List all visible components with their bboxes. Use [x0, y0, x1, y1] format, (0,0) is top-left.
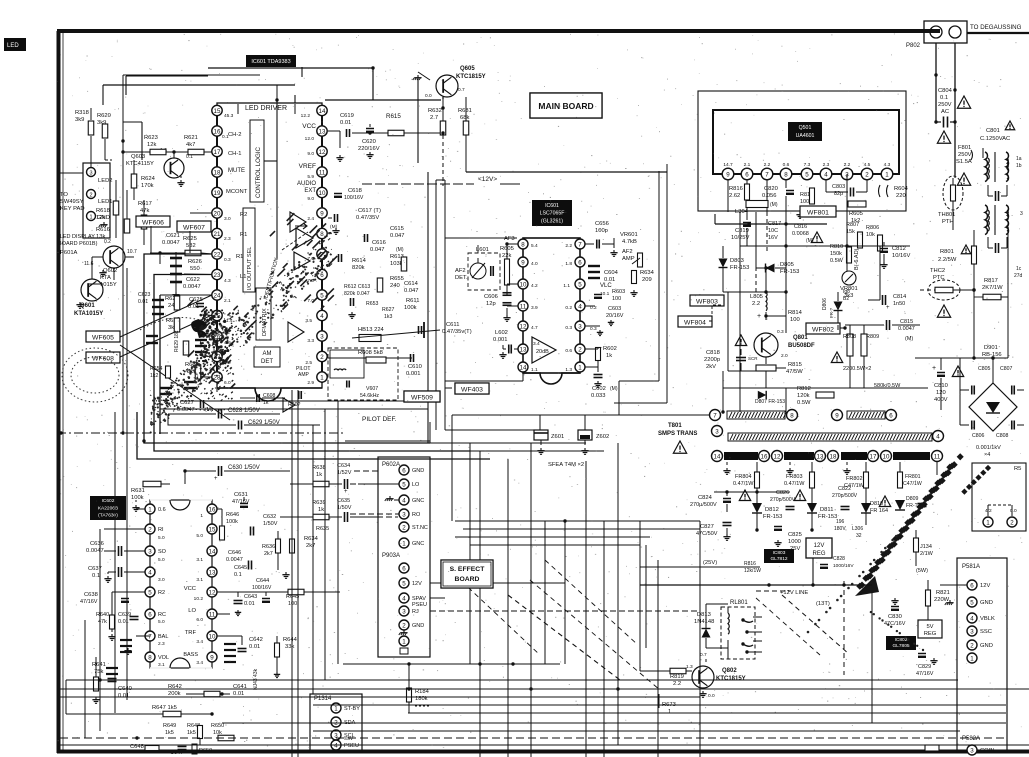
R808 R809 — [847, 334, 853, 356]
dense cluster pins 25-27 — [196, 309, 234, 401]
svg-text:R819: R819 — [670, 674, 684, 680]
svg-text:R627: R627 — [382, 307, 395, 313]
P903A pin 6 — [399, 563, 409, 573]
svg-text:(M): (M) — [396, 247, 404, 253]
extra caps left column — [152, 299, 164, 301]
T801 secondary black bars — [712, 451, 723, 462]
wires q605 — [442, 97, 444, 121]
svg-text:UA4601: UA4601 — [796, 133, 815, 139]
svg-text:1: 1 — [885, 171, 889, 178]
svg-text:WF509: WF509 — [411, 394, 433, 401]
svg-text:D805: D805 — [780, 262, 794, 268]
svg-text:15: 15 — [209, 526, 216, 533]
svg-text:0.0047: 0.0047 — [183, 284, 201, 290]
sound IC pin 5 — [575, 279, 585, 289]
P581A pin 6 — [967, 580, 977, 590]
IC601 pin 4 — [317, 310, 327, 320]
svg-text:2: 2 — [320, 354, 324, 361]
svg-text:L805: L805 — [750, 294, 763, 300]
svg-text:C818: C818 — [706, 350, 720, 356]
label WF607 — [177, 221, 211, 232]
svg-text:0.1: 0.1 — [234, 572, 242, 578]
svg-text:11: 11 — [520, 303, 527, 310]
svg-text:C606: C606 — [484, 294, 498, 300]
svg-text:4.3: 4.3 — [884, 162, 891, 168]
svg-text:KTA: KTA — [100, 275, 111, 281]
svg-text:100k: 100k — [404, 305, 417, 311]
svg-text:1a: 1a — [1016, 156, 1022, 162]
svg-text:3.5: 3.5 — [305, 318, 312, 324]
P903A pin 5 — [399, 578, 409, 588]
line to T801 pin7 — [452, 414, 709, 416]
bottom bus lines — [343, 663, 560, 665]
svg-text:FR-153: FR-153 — [780, 269, 799, 275]
svg-text:RO: RO — [412, 512, 421, 518]
svg-text:0.5W: 0.5W — [830, 258, 844, 264]
T801 primary bar 7-8 — [727, 411, 785, 419]
svg-text:7: 7 — [148, 633, 152, 640]
svg-text:12p: 12p — [486, 301, 496, 307]
svg-text:TRF: TRF — [185, 630, 197, 636]
bus small res — [925, 745, 939, 751]
svg-text:5.0: 5.0 — [158, 535, 165, 541]
svg-text:0.3: 0.3 — [224, 257, 231, 263]
svg-text:C47/1W: C47/1W — [903, 481, 922, 487]
svg-text:3: 3 — [402, 608, 406, 615]
svg-text:3.1: 3.1 — [158, 662, 165, 668]
branch 4 right — [898, 472, 903, 488]
svg-text:C827: C827 — [700, 524, 714, 530]
wires to P602A — [354, 470, 378, 472]
svg-text:GND: GND — [980, 600, 993, 606]
svg-text:9: 9 — [726, 171, 730, 178]
svg-text:(25V): (25V) — [703, 560, 717, 566]
svg-text:HB13 224: HB13 224 — [358, 327, 385, 333]
P581A pin 4 — [967, 613, 977, 623]
svg-text:1k: 1k — [316, 472, 322, 478]
IC602 pin 11 — [207, 609, 217, 619]
caps C626 — [184, 381, 196, 383]
svg-text:+: + — [932, 365, 936, 372]
MAIN BOARD box — [530, 93, 602, 118]
T801 pin 3 — [712, 426, 723, 437]
R184 — [407, 688, 412, 702]
svg-text:SMPS TRANS: SMPS TRANS — [658, 431, 697, 437]
svg-text:C611: C611 — [446, 322, 459, 328]
svg-text:SW49SY: SW49SY — [60, 199, 84, 205]
svg-text:R647 1k5: R647 1k5 — [152, 705, 177, 711]
svg-text:9: 9 — [521, 259, 525, 266]
svg-text:B2: B2 — [843, 296, 849, 302]
svg-text:VCC: VCC — [184, 586, 196, 592]
svg-text:P802: P802 — [906, 43, 921, 49]
svg-text:0.6: 0.6 — [158, 507, 166, 513]
svg-text:Z602: Z602 — [596, 434, 609, 440]
svg-text:AM: AM — [263, 351, 272, 357]
svg-text:2.0: 2.0 — [781, 353, 788, 359]
svg-text:AUDIO: AUDIO — [297, 181, 316, 187]
svg-text:8: 8 — [148, 654, 152, 661]
svg-text:2.7: 2.7 — [430, 115, 438, 121]
svg-text:0.0047: 0.0047 — [177, 407, 195, 413]
svg-text:BU508DF: BU508DF — [788, 343, 815, 349]
T801 pin 9 — [832, 410, 843, 421]
svg-text:10.7: 10.7 — [127, 249, 137, 255]
svg-text:PILOT DEF.: PILOT DEF. — [362, 416, 397, 423]
label WF605 — [86, 331, 120, 342]
svg-text:(GL3261): (GL3261) — [541, 218, 563, 224]
svg-text:170k: 170k — [141, 183, 154, 189]
svg-text:3.0: 3.0 — [224, 216, 231, 222]
power area long verticals — [739, 212, 741, 412]
IC601 pin 8 — [317, 228, 327, 238]
svg-text:AMP: AMP — [298, 372, 310, 378]
svg-text:LSC7065F: LSC7065F — [540, 211, 565, 217]
svg-text:12V: 12V — [814, 543, 825, 549]
svg-text:R632: R632 — [428, 108, 442, 114]
IC601 hatch bands — [188, 213, 338, 388]
svg-text:WF606: WF606 — [142, 219, 164, 226]
VR801 — [842, 271, 856, 285]
svg-text:D809: D809 — [906, 496, 919, 502]
svg-text:FR-153: FR-153 — [818, 514, 837, 520]
svg-text:R612 C613: R612 C613 — [344, 284, 370, 290]
nested L wires — [144, 254, 430, 443]
svg-text:WF804: WF804 — [684, 319, 706, 326]
svg-text:19: 19 — [214, 190, 221, 197]
svg-text:8: 8 — [320, 231, 324, 238]
svg-text:WF803: WF803 — [696, 298, 718, 305]
svg-text:DET.: DET. — [455, 275, 468, 281]
svg-text:WF605: WF605 — [92, 334, 114, 341]
svg-text:LED2: LED2 — [98, 178, 113, 184]
svg-text:16: 16 — [214, 128, 221, 135]
warning tri — [811, 232, 822, 243]
power IC body — [713, 110, 899, 174]
svg-text:C814: C814 — [893, 294, 906, 300]
svg-text:100p: 100p — [595, 228, 608, 234]
Q801 — [754, 333, 778, 357]
svg-text:2.9: 2.9 — [307, 380, 314, 386]
svg-text:2.2: 2.2 — [673, 681, 681, 687]
svg-text:R810: R810 — [830, 244, 843, 250]
svg-text:R626: R626 — [188, 259, 202, 265]
P602A pin 6 — [399, 465, 409, 475]
IC602 pin 3 — [145, 546, 155, 556]
svg-text:14.7: 14.7 — [723, 162, 733, 168]
svg-text:14: 14 — [319, 108, 326, 115]
svg-text:17: 17 — [214, 149, 221, 156]
svg-text:15: 15 — [214, 108, 221, 115]
svg-text:4.0: 4.0 — [531, 261, 538, 267]
scribble blob — [191, 320, 207, 333]
svg-text:FR802: FR802 — [846, 476, 863, 482]
svg-text:2.2: 2.2 — [565, 243, 572, 249]
svg-text:11: 11 — [934, 453, 941, 460]
svg-text:9.0: 9.0 — [307, 151, 314, 157]
svg-text:L1: L1 — [240, 274, 246, 280]
secondary rectifier branch 1 — [726, 468, 728, 471]
svg-text:45.3: 45.3 — [224, 113, 234, 119]
svg-text:820k: 820k — [352, 265, 365, 271]
amp triangles inside — [290, 212, 306, 232]
svg-text:VOL: VOL — [158, 655, 169, 661]
svg-text:0.0: 0.0 — [425, 93, 432, 99]
svg-text:PSEU: PSEU — [344, 743, 359, 749]
sound IC pin 10 — [518, 279, 528, 289]
svg-text:47k: 47k — [98, 619, 107, 625]
svg-text:C801: C801 — [986, 128, 1000, 134]
svg-text:(5W): (5W) — [916, 568, 928, 574]
svg-text:23: 23 — [214, 272, 221, 279]
sound IC pin 8 — [518, 239, 528, 249]
svg-text:S. EFFECT: S. EFFECT — [450, 566, 486, 573]
svg-text:1.1: 1.1 — [531, 367, 538, 373]
svg-text:C635: C635 — [337, 498, 350, 504]
svg-text:100: 100 — [288, 601, 297, 607]
wire top pair — [208, 67, 373, 69]
svg-text:12: 12 — [209, 589, 216, 596]
P602A pin 4 — [399, 495, 409, 505]
svg-text:0.01: 0.01 — [340, 120, 351, 126]
svg-text:0.1: 0.1 — [940, 95, 948, 101]
svg-text:D806: D806 — [822, 298, 828, 310]
svg-text:3: 3 — [402, 511, 406, 518]
svg-text:0.47/35V: 0.47/35V — [356, 215, 379, 221]
svg-text:+: + — [757, 313, 761, 320]
svg-text:ST-BY: ST-BY — [344, 706, 360, 712]
IC602 pin 10 — [207, 631, 217, 641]
svg-text:GL7805: GL7805 — [892, 643, 909, 649]
C814 — [882, 295, 884, 305]
svg-text:P582A: P582A — [962, 736, 980, 742]
svg-text:C638: C638 — [84, 592, 98, 598]
transistor Q605 — [436, 75, 458, 97]
sound IC pin 7 — [575, 239, 585, 249]
svg-text:<12V>: <12V> — [478, 176, 497, 183]
wire keypad — [90, 136, 92, 168]
svg-text:5: 5 — [970, 599, 974, 606]
svg-text:2.1: 2.1 — [224, 298, 231, 304]
svg-text:GNC: GNC — [412, 541, 424, 547]
svg-text:1.3: 1.3 — [686, 664, 693, 670]
svg-text:6: 6 — [889, 412, 893, 419]
IC601 inner wires — [276, 100, 278, 258]
IC601 pin 2 — [317, 351, 327, 361]
power wire y224 — [715, 223, 827, 225]
svg-text:100: 100 — [790, 317, 800, 323]
P1314 pin 3 — [331, 730, 341, 740]
svg-text:120k: 120k — [797, 393, 810, 399]
svg-text:12k: 12k — [96, 215, 105, 221]
svg-text:C623: C623 — [138, 292, 151, 298]
svg-text:100/16V: 100/16V — [252, 585, 272, 591]
IC601 pin 24 — [212, 290, 222, 300]
svg-text:C619: C619 — [340, 113, 354, 119]
svg-text:SCR: SCR — [748, 356, 758, 361]
svg-text:18: 18 — [214, 169, 221, 176]
svg-text:WF802: WF802 — [812, 326, 834, 333]
svg-text:10: 10 — [883, 453, 890, 460]
svg-text:0.7: 0.7 — [700, 652, 707, 658]
WF804 — [678, 316, 712, 327]
svg-text:1k: 1k — [318, 507, 324, 513]
svg-text:9.0: 9.0 — [307, 196, 314, 202]
checker ribbon NE-SW — [855, 453, 991, 596]
IC601 pin 20 — [212, 208, 222, 218]
svg-text:R1: R1 — [240, 232, 247, 238]
svg-text:12: 12 — [520, 323, 527, 330]
extra bottom diagonals — [455, 575, 540, 655]
svg-text:270p/500V: 270p/500V — [770, 497, 796, 503]
branch 3 — [846, 468, 848, 471]
svg-text:(LED DISPLAY: (LED DISPLAY — [58, 234, 95, 240]
IC803 chip — [764, 549, 794, 563]
P581A connector — [957, 558, 1007, 752]
5V REG box — [918, 620, 942, 638]
svg-text:21: 21 — [214, 231, 221, 238]
caps under IC601 — [256, 394, 258, 402]
svg-text:C632: C632 — [263, 514, 276, 520]
svg-text:4: 4 — [936, 433, 940, 440]
svg-text:VREF: VREF — [299, 163, 316, 170]
svg-text:C644: C644 — [256, 578, 269, 584]
P802 connector — [924, 21, 967, 43]
svg-text:10k: 10k — [866, 232, 875, 238]
T801 pin 8 — [787, 410, 798, 421]
svg-text:820k 0.047: 820k 0.047 — [344, 291, 370, 297]
WF801 — [800, 206, 836, 217]
svg-text:10.2: 10.2 — [194, 596, 204, 602]
svg-text:2200p: 2200p — [704, 357, 720, 363]
svg-text:GNC: GNC — [412, 498, 424, 504]
svg-text:1: 1 — [986, 519, 990, 526]
svg-text:270p/500V: 270p/500V — [832, 493, 858, 499]
P581A pin 3 — [967, 626, 977, 636]
svg-text:9: 9 — [835, 412, 839, 419]
svg-text:2k7: 2k7 — [306, 543, 315, 549]
IC601 pin 14 — [317, 105, 327, 115]
svg-text:5V: 5V — [926, 624, 933, 630]
frame bottom border — [57, 750, 1029, 754]
svg-text:0.01: 0.01 — [118, 619, 129, 625]
svg-text:Q501: Q501 — [799, 125, 812, 131]
svg-text:150k: 150k — [830, 251, 842, 257]
svg-text:8: 8 — [790, 412, 794, 419]
TH801 — [943, 176, 963, 210]
svg-text:2.3: 2.3 — [224, 236, 231, 242]
P581A pin 1 — [967, 653, 977, 663]
pin11 LO row — [217, 613, 230, 615]
svg-text:R650: R650 — [199, 748, 212, 754]
svg-text:1.8: 1.8 — [565, 261, 572, 267]
svg-text:L306: L306 — [852, 526, 863, 532]
gnd pin1 — [135, 505, 137, 508]
svg-text:7: 7 — [713, 412, 717, 419]
svg-text:C807: C807 — [1000, 366, 1013, 372]
svg-text:5: 5 — [805, 171, 809, 178]
svg-text:REG: REG — [924, 631, 937, 637]
svg-text:3k9: 3k9 — [75, 117, 84, 123]
svg-text:4.5: 4.5 — [864, 162, 871, 168]
MAIN BOARD redraw — [530, 93, 602, 118]
P903A pin 3 — [399, 606, 409, 616]
svg-text:R605: R605 — [849, 211, 863, 217]
wire long vertical x123 — [122, 75, 124, 433]
C830 — [891, 606, 899, 608]
svg-text:D803: D803 — [730, 258, 744, 264]
svg-text:0.001: 0.001 — [406, 371, 421, 377]
svg-text:C820: C820 — [764, 186, 778, 192]
svg-text:R634: R634 — [304, 536, 319, 542]
svg-text:C634: C634 — [337, 463, 350, 469]
svg-text:Ig8: Ig8 — [843, 289, 850, 295]
bottom verticals left — [65, 680, 67, 714]
svg-text:R816: R816 — [744, 561, 756, 567]
svg-text:0.047: 0.047 — [370, 247, 385, 253]
svg-text:VR601: VR601 — [620, 232, 638, 238]
svg-text:3.3: 3.3 — [307, 338, 314, 344]
svg-text:BASS: BASS — [183, 652, 198, 658]
svg-text:2.3: 2.3 — [823, 162, 830, 168]
svg-text:1b: 1b — [1016, 163, 1022, 169]
svg-text:6: 6 — [970, 582, 974, 589]
svg-text:0.01: 0.01 — [233, 691, 244, 697]
svg-text:3: 3 — [89, 170, 92, 176]
small checker patch right — [985, 465, 991, 471]
svg-text:S1.5A: S1.5A — [956, 159, 972, 165]
svg-text:R806: R806 — [866, 225, 879, 231]
svg-text:22: 22 — [214, 251, 221, 258]
transformer end pin 4 — [933, 431, 944, 442]
svg-text:AF2: AF2 — [455, 268, 466, 274]
svg-text:4: 4 — [334, 742, 338, 749]
IC601 pin 5 — [317, 290, 327, 300]
ribbon arrowhead — [855, 576, 879, 596]
IC601 pin 6 — [317, 269, 327, 279]
svg-text:18: 18 — [830, 453, 837, 460]
IC601 chip label — [246, 55, 296, 67]
svg-text:D812: D812 — [765, 507, 779, 513]
svg-text:R631: R631 — [131, 488, 145, 494]
svg-text:R602: R602 — [603, 346, 617, 352]
R605 — [848, 201, 866, 207]
svg-text:R816: R816 — [729, 186, 743, 192]
svg-text:R636: R636 — [262, 544, 275, 550]
svg-text:C824: C824 — [698, 495, 713, 501]
svg-text:R617: R617 — [138, 201, 152, 207]
svg-text:33k: 33k — [285, 644, 294, 650]
svg-text:4.3: 4.3 — [224, 278, 231, 284]
svg-text:R604: R604 — [894, 186, 909, 192]
svg-text:16: 16 — [761, 453, 768, 460]
svg-text:9: 9 — [210, 654, 214, 661]
svg-text:10/16V: 10/16V — [892, 253, 911, 259]
svg-text:13: 13 — [817, 453, 824, 460]
CONTROL LOGIC box — [250, 120, 264, 202]
svg-text:0.2: 0.2 — [565, 305, 572, 311]
C630 cap — [218, 466, 220, 476]
svg-text:12k: 12k — [147, 142, 156, 148]
svg-text:20/16V: 20/16V — [606, 313, 624, 319]
wires from P802 — [935, 43, 937, 120]
svg-text:1000/16V: 1000/16V — [833, 563, 854, 569]
capacitor C629 — [238, 421, 240, 430]
svg-text:0.047: 0.047 — [404, 288, 419, 294]
svg-text:8: 8 — [521, 241, 525, 248]
svg-text:P903A: P903A — [382, 553, 400, 559]
svg-text:2.2: 2.2 — [844, 162, 851, 168]
